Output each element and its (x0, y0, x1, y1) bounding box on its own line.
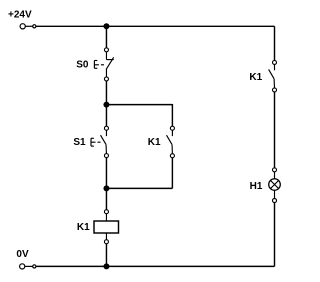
terminal 0V (20, 264, 36, 269)
node junction B (103, 185, 109, 191)
wire bottom of parallel branch (horizontal) (106, 187, 172, 189)
svg-text:S1: S1 (73, 137, 86, 148)
svg-text:H1: H1 (250, 181, 263, 192)
terminal +24V (20, 24, 36, 29)
indicator lamp H1 (269, 168, 281, 203)
wire S0 to junction A (105, 81, 107, 105)
svg-text:K1: K1 (249, 72, 262, 83)
wire branch to K1 contact (horizontal) (106, 104, 172, 106)
wire branch down to K1 contact (171, 104, 173, 126)
wire bottom rail (36, 265, 275, 267)
svg-text:0V: 0V (16, 249, 29, 260)
wire right rail upper (274, 26, 276, 60)
wire right rail middle (274, 92, 276, 168)
wire K1 contact down to junction B (right side of parallel) (171, 158, 173, 189)
svg-text:K1: K1 (148, 137, 161, 148)
wire right rail lower (274, 203, 276, 267)
relay contact K1 (NO, right rail) (269, 60, 277, 92)
svg-text:+24V: +24V (8, 10, 32, 21)
pushbutton S0 (NC contact) (94, 48, 113, 81)
wire top rail (36, 25, 275, 27)
wire S1 to junction B (105, 158, 107, 189)
wire junction B to coil (105, 188, 107, 209)
svg-text:K1: K1 (77, 222, 90, 233)
wire coil to bottom rail (105, 244, 107, 267)
relay contact K1 (NO, middle branch) (167, 126, 175, 158)
node top rail junction (103, 23, 109, 29)
svg-text:S0: S0 (76, 60, 89, 71)
node junction A (103, 102, 109, 108)
wire junction A to S1 (105, 105, 107, 127)
relay coil K1 (94, 210, 119, 244)
pushbutton S1 (NO contact) (91, 126, 108, 157)
wire left rail upper (105, 26, 107, 48)
node bottom rail junction (103, 263, 109, 269)
